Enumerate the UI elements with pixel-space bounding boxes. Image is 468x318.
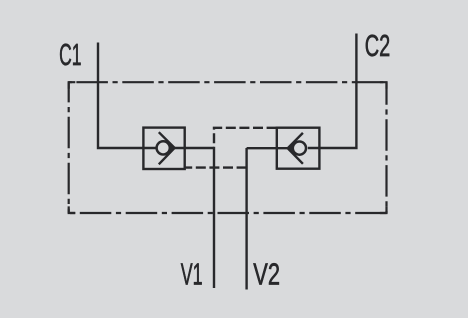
wire: CV1 outlet to node V1: [173, 147, 214, 149]
wire: node V2 vertical run to port V2: [245, 148, 247, 290]
pilot line (dashed) from node V1 to CV2: [214, 128, 277, 148]
enclosure boundary (dash-dot valve body outline): [69, 82, 387, 213]
wire: port C1 down to check valve CV1 inlet: [98, 43, 156, 149]
label V2: [253, 257, 280, 292]
pilot line (dashed) from node V2 to CV1: [185, 166, 247, 168]
wire: CV2 outlet to node V2: [247, 147, 290, 149]
svg-text:C1: C1: [59, 38, 81, 72]
check valve CV2 (right, seat points left): [277, 128, 320, 169]
label V1: [181, 258, 203, 292]
svg-text:C2: C2: [365, 28, 391, 64]
svg-text:V2: V2: [253, 257, 280, 292]
wire: port C2 down to check valve CV2 inlet: [308, 34, 357, 149]
svg-text:V1: V1: [181, 258, 203, 292]
label C2: [365, 28, 391, 64]
check valve CV1 (left, seat points right): [143, 128, 184, 169]
wire: node V1 vertical run to port V1: [213, 148, 215, 288]
label C1: [59, 38, 81, 72]
